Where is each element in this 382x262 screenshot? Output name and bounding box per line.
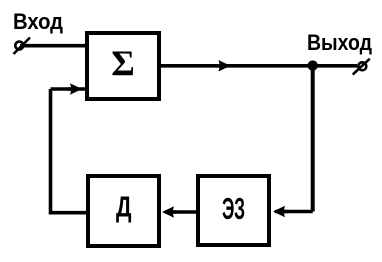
svg-text:ЭЗ: ЭЗ: [222, 191, 245, 226]
input terminal (circle with slash): [14, 38, 31, 55]
wire: delay block to detector block: [165, 210, 196, 214]
wire: feedback horizontal into delay block: [275, 210, 313, 214]
arrowhead into detector block Д: [162, 206, 177, 217]
svg-text:Д: Д: [116, 192, 132, 224]
delay block ЭЗ: [198, 176, 269, 245]
wire: detector block output to left feedback corner: [51, 211, 90, 215]
output terminal (circle with slash): [353, 59, 370, 75]
arrowhead into delay block ЭЗ: [273, 206, 288, 217]
wire: feedback vertical segment on left: [49, 89, 53, 215]
node: output junction dot: [308, 60, 318, 70]
svg-text:Выход: Выход: [307, 30, 372, 55]
arrowhead into summing block: [68, 83, 83, 94]
svg-text:Σ: Σ: [111, 43, 135, 83]
detector block Д: [88, 176, 159, 246]
wire: feedback vertical segment on right: [311, 66, 315, 212]
wire: input terminal to summing block: [20, 44, 88, 48]
svg-text:Вход: Вход: [13, 9, 63, 34]
summing block Σ: [87, 33, 159, 99]
wire: summing block output to output terminal: [159, 64, 357, 68]
arrowhead on output wire: [216, 60, 231, 71]
wire: left feedback into summing block: [51, 87, 87, 91]
